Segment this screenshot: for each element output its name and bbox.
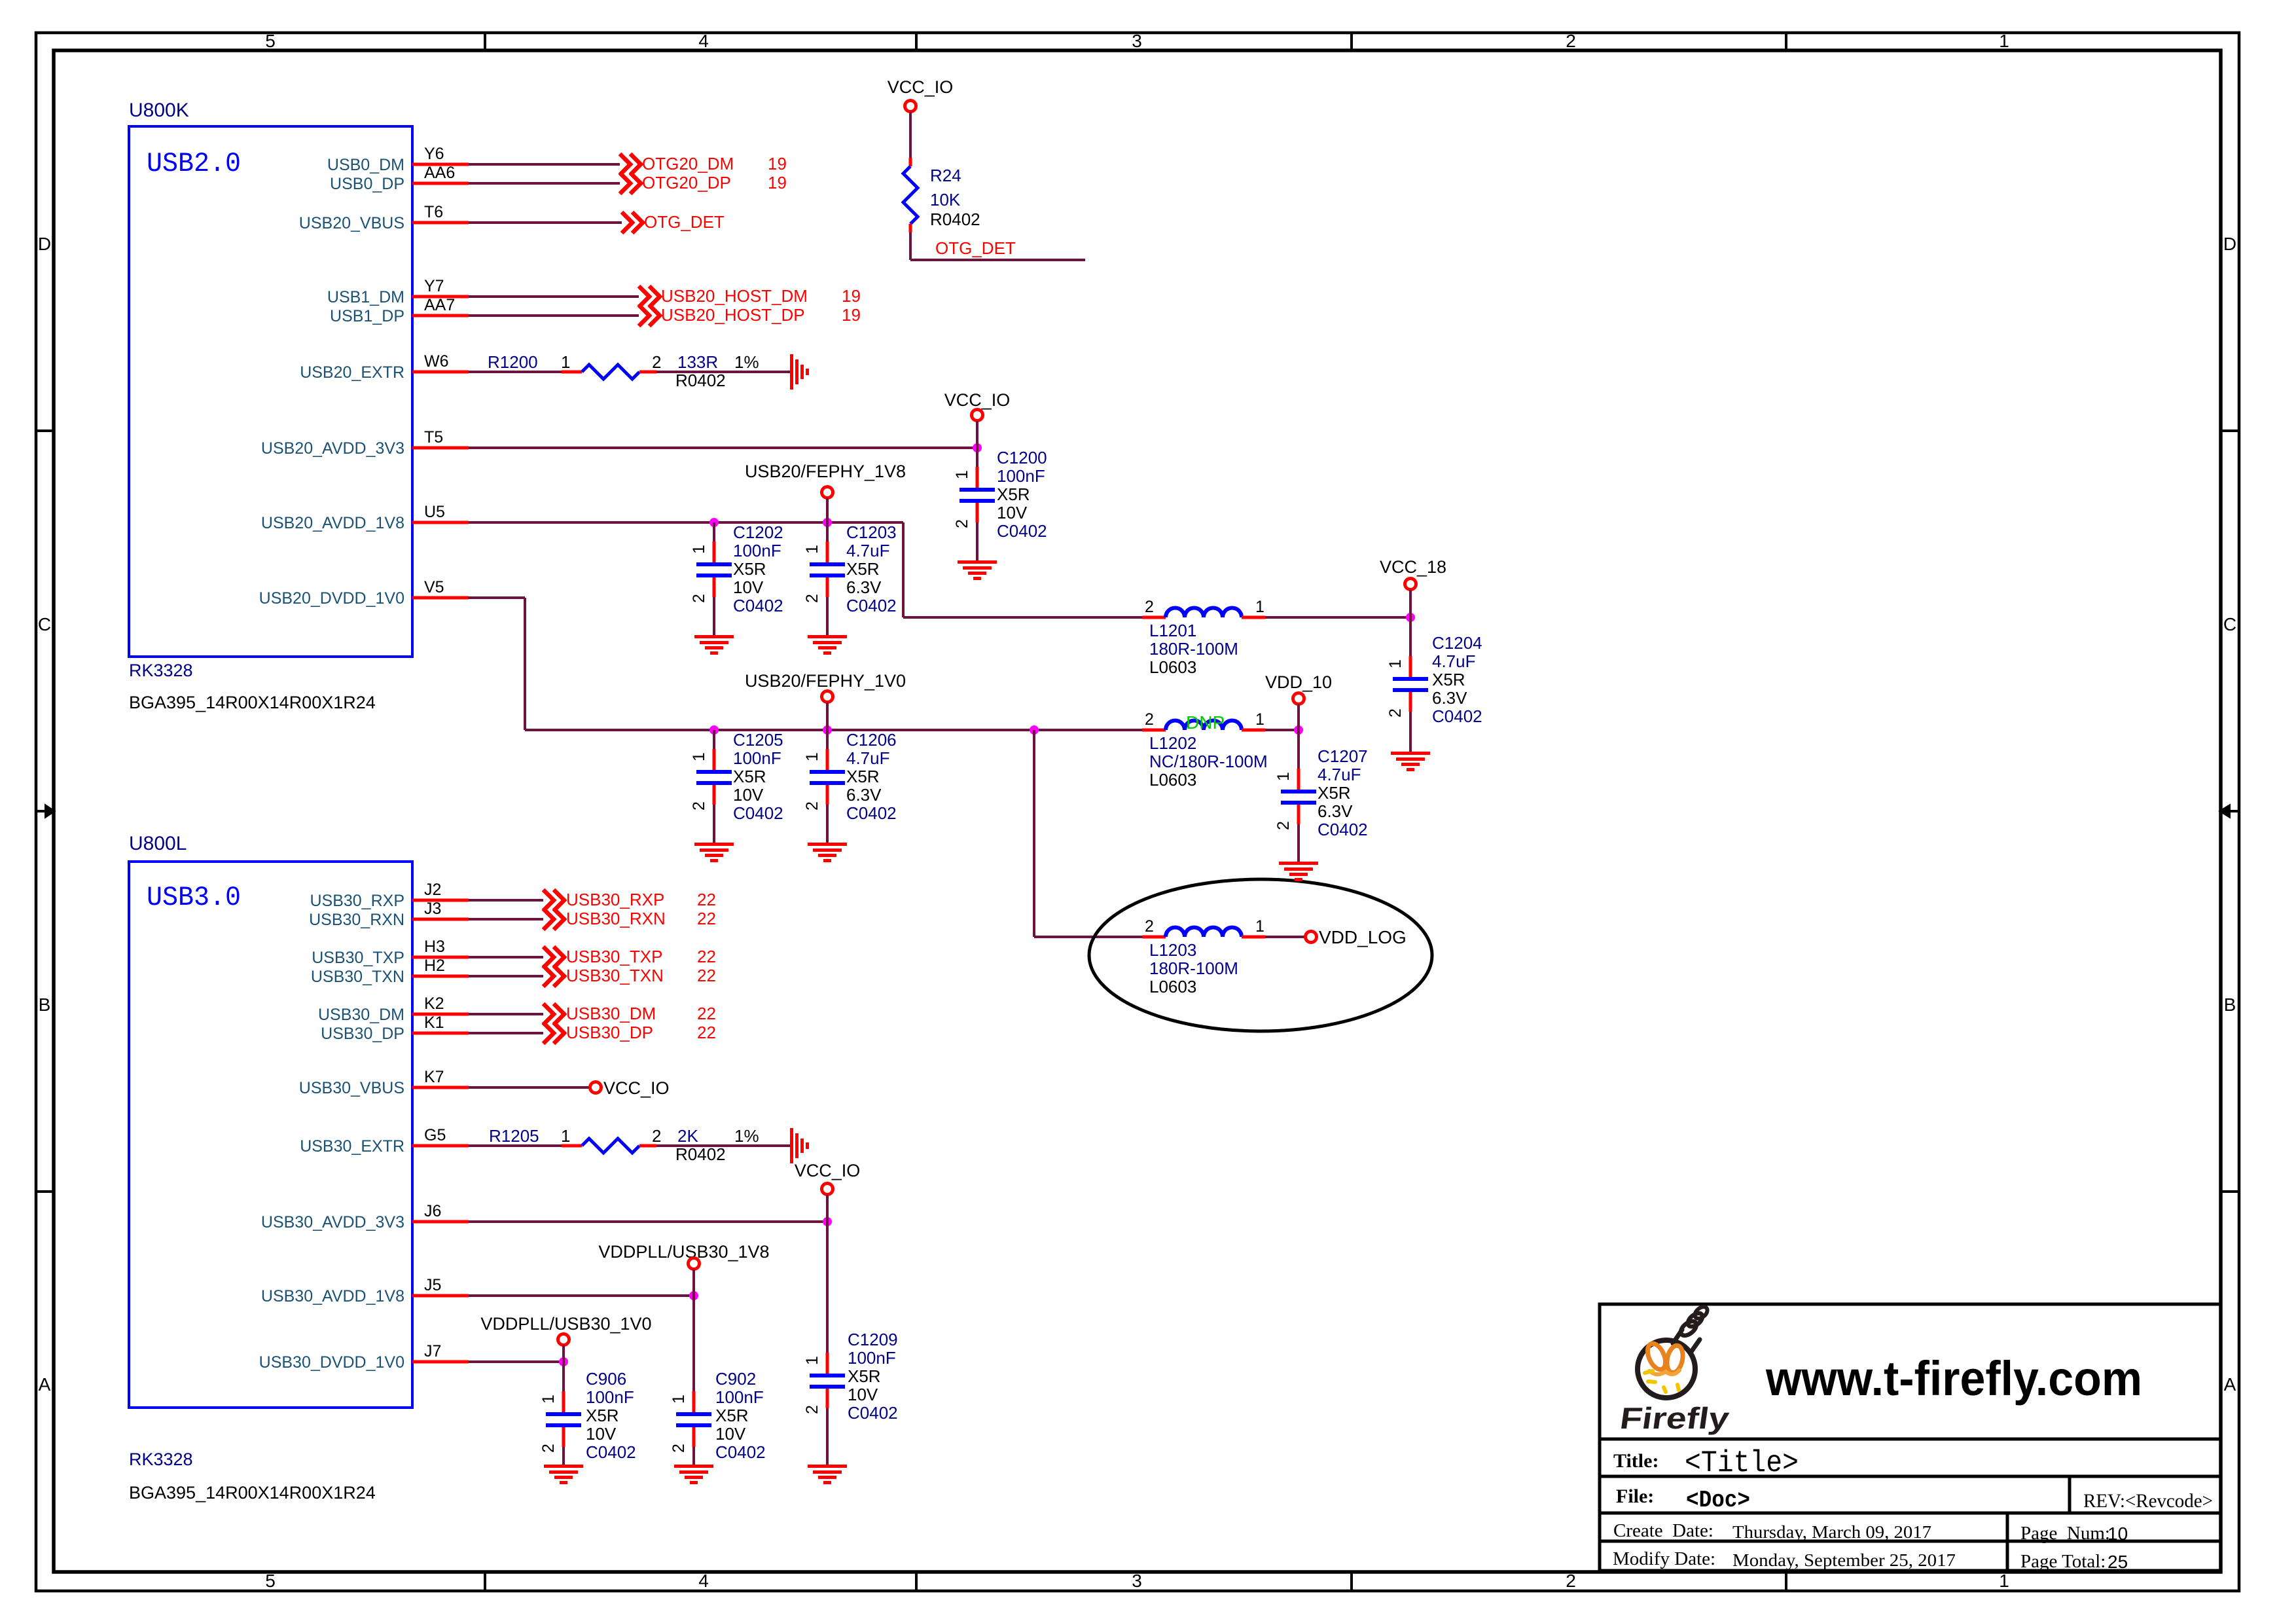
- svg-text:J2: J2: [424, 881, 441, 899]
- svg-text:H3: H3: [424, 938, 445, 956]
- svg-text:19: 19: [768, 173, 787, 192]
- svg-text:2: 2: [1566, 1571, 1576, 1591]
- svg-text:2: 2: [803, 801, 821, 811]
- svg-text:1: 1: [670, 1395, 688, 1404]
- svg-text:USB30_RXP: USB30_RXP: [310, 892, 404, 910]
- svg-text:V5: V5: [424, 578, 444, 596]
- svg-text:VDD_LOG: VDD_LOG: [1319, 927, 1407, 947]
- svg-text:C: C: [38, 614, 51, 634]
- svg-text:C1206: C1206: [846, 730, 897, 750]
- svg-text:C0402: C0402: [848, 1403, 898, 1423]
- svg-text:USB30_EXTR: USB30_EXTR: [300, 1137, 404, 1156]
- svg-text:VDDPLL/USB30_1V8: VDDPLL/USB30_1V8: [598, 1242, 769, 1262]
- svg-text:X5R: X5R: [846, 767, 880, 786]
- svg-text:3: 3: [1132, 31, 1142, 51]
- svg-text:1: 1: [539, 1395, 558, 1404]
- svg-text:<Doc>: <Doc>: [1686, 1487, 1750, 1514]
- svg-text:180R-100M: 180R-100M: [1149, 958, 1238, 978]
- svg-text:19: 19: [842, 305, 861, 325]
- svg-text:10K: 10K: [930, 190, 961, 210]
- svg-text:2: 2: [539, 1444, 558, 1453]
- svg-text:C1209: C1209: [848, 1330, 898, 1349]
- svg-text:1: 1: [690, 752, 708, 761]
- svg-text:C1205: C1205: [733, 730, 783, 750]
- svg-text:4.7uF: 4.7uF: [846, 748, 890, 768]
- svg-text:D: D: [2223, 234, 2236, 254]
- svg-text:L0603: L0603: [1149, 977, 1196, 996]
- svg-text:USB30_DP: USB30_DP: [321, 1025, 404, 1043]
- svg-text:USB20_EXTR: USB20_EXTR: [300, 363, 404, 382]
- svg-text:USB30_AVDD_1V8: USB30_AVDD_1V8: [261, 1287, 404, 1305]
- svg-text:X5R: X5R: [848, 1366, 881, 1386]
- svg-text:133R: 133R: [677, 352, 718, 372]
- svg-text:2: 2: [1274, 821, 1293, 830]
- svg-text:22: 22: [697, 966, 716, 985]
- svg-text:C906: C906: [586, 1369, 626, 1389]
- svg-text:1%: 1%: [734, 1126, 759, 1146]
- svg-text:10V: 10V: [733, 785, 764, 805]
- svg-text:W6: W6: [424, 352, 449, 371]
- svg-text:USB20_AVDD_3V3: USB20_AVDD_3V3: [261, 439, 404, 458]
- svg-text:10V: 10V: [997, 503, 1028, 522]
- svg-text:R1205: R1205: [489, 1126, 539, 1146]
- svg-text:C0402: C0402: [733, 803, 783, 823]
- svg-text:2: 2: [1145, 917, 1154, 936]
- svg-text:6.3V: 6.3V: [1432, 688, 1467, 708]
- svg-text:T5: T5: [424, 428, 443, 447]
- svg-text:100nF: 100nF: [733, 541, 781, 560]
- svg-text:1%: 1%: [734, 352, 759, 372]
- svg-text:2: 2: [953, 519, 971, 528]
- svg-text:USB0_DM: USB0_DM: [327, 156, 404, 174]
- svg-text:100nF: 100nF: [586, 1387, 634, 1407]
- svg-text:C: C: [2223, 614, 2236, 634]
- svg-text:REV:<Revcode>: REV:<Revcode>: [2083, 1490, 2213, 1512]
- svg-text:C902: C902: [715, 1369, 756, 1389]
- svg-text:1: 1: [803, 545, 821, 554]
- svg-text:2K: 2K: [677, 1126, 698, 1146]
- svg-text:J3: J3: [424, 900, 441, 918]
- svg-text:L1201: L1201: [1149, 621, 1196, 640]
- svg-text:NC/180R-100M: NC/180R-100M: [1149, 752, 1268, 771]
- svg-text:USB0_DP: USB0_DP: [330, 175, 404, 193]
- svg-text:100nF: 100nF: [733, 748, 781, 768]
- svg-text:22: 22: [697, 909, 716, 928]
- svg-text:1: 1: [803, 1356, 821, 1365]
- svg-text:C0402: C0402: [846, 596, 897, 615]
- svg-text:R0402: R0402: [930, 210, 980, 229]
- svg-text:C0402: C0402: [715, 1442, 766, 1462]
- svg-text:5: 5: [265, 31, 276, 51]
- svg-text:<Title>: <Title>: [1685, 1446, 1799, 1480]
- svg-text:U5: U5: [424, 503, 445, 521]
- svg-text:AA6: AA6: [424, 164, 455, 182]
- svg-text:USB30_TXN: USB30_TXN: [566, 966, 664, 985]
- svg-text:VCC_IO: VCC_IO: [888, 77, 954, 97]
- svg-text:USB30_AVDD_3V3: USB30_AVDD_3V3: [261, 1213, 404, 1231]
- svg-text:K2: K2: [424, 994, 444, 1013]
- svg-text:USB20/FEPHY_1V8: USB20/FEPHY_1V8: [745, 462, 906, 481]
- svg-text:USB30_DP: USB30_DP: [566, 1023, 653, 1042]
- svg-text:C1200: C1200: [997, 448, 1047, 467]
- svg-text:1: 1: [803, 752, 821, 761]
- svg-text:USB30_TXP: USB30_TXP: [566, 947, 662, 966]
- svg-text:1: 1: [1999, 31, 2009, 51]
- svg-text:19: 19: [842, 286, 861, 306]
- svg-text:C1207: C1207: [1318, 746, 1368, 766]
- svg-text:22: 22: [697, 1023, 716, 1042]
- svg-text:U800K: U800K: [129, 100, 189, 121]
- svg-text:VCC_IO: VCC_IO: [603, 1078, 670, 1098]
- svg-text:19: 19: [768, 154, 787, 173]
- svg-text:3: 3: [1132, 1571, 1142, 1591]
- svg-text:X5R: X5R: [846, 559, 880, 579]
- svg-text:VDD_10: VDD_10: [1265, 672, 1332, 692]
- svg-text:2: 2: [803, 594, 821, 603]
- svg-text:OTG_DET: OTG_DET: [644, 212, 725, 232]
- svg-text:1: 1: [1255, 598, 1265, 616]
- svg-text:File:: File:: [1616, 1486, 1654, 1507]
- svg-text:Title:: Title:: [1613, 1450, 1659, 1472]
- svg-text:USB30_RXN: USB30_RXN: [309, 911, 404, 929]
- svg-text:C1202: C1202: [733, 522, 783, 542]
- svg-text:R0402: R0402: [675, 1144, 726, 1164]
- svg-text:www.t-firefly.com: www.t-firefly.com: [1765, 1351, 2142, 1406]
- svg-text:4: 4: [698, 31, 709, 51]
- svg-text:USB3.0: USB3.0: [147, 882, 241, 913]
- svg-text:USB1_DP: USB1_DP: [330, 307, 404, 325]
- svg-text:J7: J7: [424, 1342, 441, 1360]
- svg-text:L0603: L0603: [1149, 770, 1196, 790]
- svg-text:2: 2: [1566, 31, 1576, 51]
- svg-text:4.7uF: 4.7uF: [846, 541, 890, 560]
- svg-text:1: 1: [1255, 710, 1265, 729]
- svg-text:C0402: C0402: [733, 596, 783, 615]
- svg-text:USB20_AVDD_1V8: USB20_AVDD_1V8: [261, 514, 404, 532]
- svg-text:10V: 10V: [586, 1424, 617, 1444]
- svg-text:VCC_IO: VCC_IO: [795, 1161, 861, 1180]
- svg-text:BGA395_14R00X14R00X1R24: BGA395_14R00X14R00X1R24: [129, 1483, 376, 1503]
- svg-text:4.7uF: 4.7uF: [1432, 651, 1476, 671]
- svg-text:B: B: [39, 994, 51, 1015]
- svg-text:BGA395_14R00X14R00X1R24: BGA395_14R00X14R00X1R24: [129, 693, 376, 712]
- svg-text:2: 2: [1386, 708, 1405, 718]
- svg-text:2: 2: [690, 594, 708, 603]
- svg-text:X5R: X5R: [586, 1406, 619, 1425]
- svg-text:OTG20_DM: OTG20_DM: [642, 154, 734, 173]
- svg-text:B: B: [2224, 994, 2236, 1015]
- svg-text:X5R: X5R: [1318, 783, 1351, 803]
- svg-text:J5: J5: [424, 1276, 441, 1294]
- svg-text:X5R: X5R: [733, 559, 766, 579]
- svg-text:H2: H2: [424, 957, 445, 975]
- svg-text:Create Date:: Create Date:: [1613, 1520, 1713, 1541]
- svg-text:1: 1: [561, 1126, 570, 1146]
- svg-text:X5R: X5R: [997, 484, 1030, 504]
- svg-text:2: 2: [652, 352, 661, 372]
- svg-text:USB20_VBUS: USB20_VBUS: [299, 214, 404, 232]
- svg-text:AA7: AA7: [424, 296, 455, 314]
- svg-text:OTG_DET: OTG_DET: [935, 238, 1016, 258]
- svg-text:USB30_DM: USB30_DM: [566, 1004, 656, 1023]
- svg-text:6.3V: 6.3V: [1318, 801, 1353, 821]
- svg-text:Monday, September 25, 2017: Monday, September 25, 2017: [1732, 1550, 1956, 1570]
- svg-text:2: 2: [690, 801, 708, 811]
- svg-text:USB20_HOST_DM: USB20_HOST_DM: [661, 286, 808, 306]
- svg-text:D: D: [38, 234, 51, 254]
- svg-text:Y7: Y7: [424, 277, 444, 295]
- svg-text:C0402: C0402: [586, 1442, 636, 1462]
- svg-text:Modify Date:: Modify Date:: [1613, 1548, 1715, 1569]
- svg-text:100nF: 100nF: [848, 1348, 896, 1368]
- svg-text:R24: R24: [930, 166, 961, 185]
- svg-text:USB20/FEPHY_1V0: USB20/FEPHY_1V0: [745, 671, 906, 691]
- svg-text:K1: K1: [424, 1013, 444, 1032]
- svg-text:10V: 10V: [848, 1385, 878, 1404]
- svg-text:Page Num:: Page Num:: [2020, 1523, 2110, 1544]
- svg-text:4.7uF: 4.7uF: [1318, 765, 1361, 784]
- svg-text:1: 1: [1255, 917, 1265, 936]
- svg-text:VCC_IO: VCC_IO: [944, 390, 1011, 410]
- svg-text:2: 2: [1145, 710, 1154, 729]
- svg-text:USB30_TXN: USB30_TXN: [311, 968, 404, 986]
- svg-text:Y6: Y6: [424, 145, 444, 163]
- svg-text:USB2.0: USB2.0: [147, 148, 241, 179]
- svg-text:VCC_18: VCC_18: [1380, 557, 1446, 577]
- svg-text:22: 22: [697, 890, 716, 909]
- svg-text:USB20_HOST_DP: USB20_HOST_DP: [661, 305, 805, 325]
- svg-text:C1204: C1204: [1432, 633, 1482, 653]
- svg-text:DNP: DNP: [1186, 712, 1225, 733]
- svg-text:A: A: [2224, 1374, 2236, 1395]
- svg-text:22: 22: [697, 947, 716, 966]
- svg-text:K7: K7: [424, 1068, 444, 1086]
- svg-text:R0402: R0402: [675, 371, 726, 390]
- svg-text:T6: T6: [424, 203, 443, 221]
- svg-text:USB1_DM: USB1_DM: [327, 288, 404, 306]
- svg-text:VDDPLL/USB30_1V0: VDDPLL/USB30_1V0: [480, 1314, 651, 1334]
- svg-text:USB20_DVDD_1V0: USB20_DVDD_1V0: [259, 589, 404, 608]
- svg-text:C1203: C1203: [846, 522, 897, 542]
- svg-text:1: 1: [690, 545, 708, 554]
- svg-text:Thursday, March 09, 2017: Thursday, March 09, 2017: [1732, 1522, 1931, 1542]
- svg-text:X5R: X5R: [733, 767, 766, 786]
- svg-text:C0402: C0402: [997, 521, 1047, 541]
- svg-text:1: 1: [1274, 772, 1293, 781]
- svg-text:U800L: U800L: [129, 833, 187, 854]
- svg-text:RK3328: RK3328: [129, 1450, 193, 1469]
- svg-text:5: 5: [265, 1571, 276, 1591]
- svg-text:G5: G5: [424, 1126, 446, 1144]
- svg-text:1: 1: [561, 352, 570, 372]
- svg-text:USB30_VBUS: USB30_VBUS: [299, 1079, 404, 1097]
- svg-text:2: 2: [652, 1126, 661, 1146]
- svg-text:Firefly: Firefly: [1618, 1401, 1732, 1435]
- svg-text:10V: 10V: [733, 577, 764, 597]
- svg-text:22: 22: [697, 1004, 716, 1023]
- svg-text:180R-100M: 180R-100M: [1149, 639, 1238, 659]
- svg-text:L1202: L1202: [1149, 733, 1196, 753]
- svg-text:100nF: 100nF: [997, 466, 1045, 486]
- svg-text:L0603: L0603: [1149, 657, 1196, 677]
- svg-text:R1200: R1200: [488, 352, 538, 372]
- svg-text:OTG20_DP: OTG20_DP: [642, 173, 731, 192]
- svg-text:1: 1: [1386, 659, 1405, 668]
- svg-text:2: 2: [670, 1444, 688, 1453]
- svg-text:X5R: X5R: [1432, 670, 1465, 689]
- svg-text:USB30_DM: USB30_DM: [318, 1006, 404, 1024]
- svg-text:J6: J6: [424, 1202, 441, 1220]
- svg-text:C0402: C0402: [1432, 706, 1482, 726]
- svg-text:USB30_RXP: USB30_RXP: [566, 890, 664, 909]
- svg-text:A: A: [39, 1374, 51, 1395]
- svg-text:USB30_RXN: USB30_RXN: [566, 909, 666, 928]
- svg-text:USB30_DVDD_1V0: USB30_DVDD_1V0: [259, 1353, 404, 1372]
- svg-text:10V: 10V: [715, 1424, 746, 1444]
- svg-text:L1203: L1203: [1149, 940, 1196, 960]
- svg-text:USB30_TXP: USB30_TXP: [312, 949, 404, 967]
- svg-text:2: 2: [803, 1405, 821, 1414]
- svg-text:1: 1: [953, 470, 971, 479]
- svg-text:RK3328: RK3328: [129, 661, 193, 680]
- svg-text:6.3V: 6.3V: [846, 785, 882, 805]
- svg-text:C0402: C0402: [1318, 820, 1368, 839]
- svg-text:10: 10: [2108, 1523, 2128, 1544]
- svg-text:Page Total:: Page Total:: [2020, 1551, 2106, 1572]
- svg-text:4: 4: [698, 1571, 709, 1591]
- svg-text:100nF: 100nF: [715, 1387, 764, 1407]
- svg-text:6.3V: 6.3V: [846, 577, 882, 597]
- svg-text:C0402: C0402: [846, 803, 897, 823]
- svg-text:2: 2: [1145, 598, 1154, 616]
- svg-text:1: 1: [1999, 1571, 2009, 1591]
- svg-text:25: 25: [2108, 1552, 2128, 1572]
- svg-text:X5R: X5R: [715, 1406, 749, 1425]
